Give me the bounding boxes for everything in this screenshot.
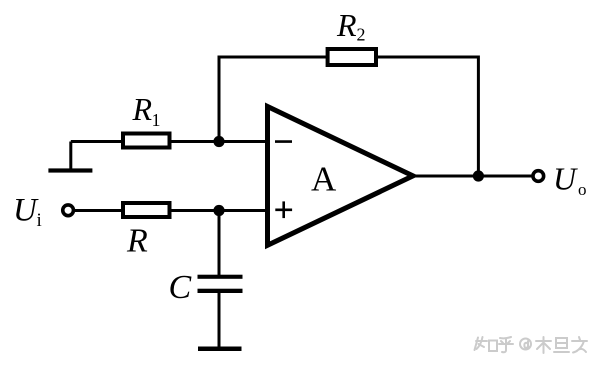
svg-text:U: U: [13, 193, 39, 229]
svg-text:R: R: [336, 7, 357, 43]
svg-text:R: R: [132, 91, 153, 127]
svg-text:R: R: [126, 223, 148, 260]
svg-text:1: 1: [152, 110, 161, 130]
svg-text:C: C: [169, 269, 192, 306]
svg-text:i: i: [37, 210, 42, 231]
svg-text:o: o: [578, 180, 587, 199]
svg-text:U: U: [553, 161, 578, 197]
svg-text:A: A: [311, 159, 337, 198]
svg-text:2: 2: [357, 25, 366, 45]
